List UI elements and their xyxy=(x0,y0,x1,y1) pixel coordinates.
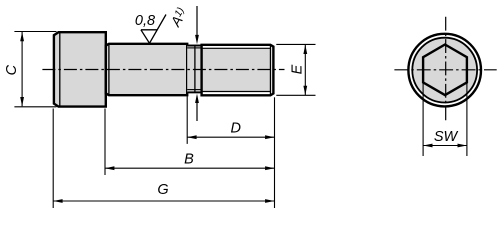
groove top edge xyxy=(187,45,201,47)
B arrow left xyxy=(105,166,114,170)
thread root line bottom xyxy=(202,91,271,93)
D extension line left xyxy=(186,94,188,144)
datum A lower arrow line xyxy=(196,102,198,121)
right shared extension line xyxy=(274,97,276,208)
datum A lower arrowhead xyxy=(195,94,199,103)
B extension line left xyxy=(104,109,106,176)
head fill xyxy=(54,32,106,106)
C dimension line xyxy=(21,32,23,106)
D arrow left xyxy=(187,135,196,139)
end view vertical centerline xyxy=(445,17,447,121)
SW dimension line xyxy=(423,145,467,147)
thread root line top xyxy=(202,47,271,49)
E dimension line xyxy=(304,45,306,96)
E arrow top xyxy=(303,45,307,54)
groove bottom inner line xyxy=(187,89,201,91)
datum A upper arrowhead xyxy=(195,35,199,44)
E extension line bottom xyxy=(276,94,315,96)
thread chamfer line xyxy=(269,45,271,96)
thread crest white band bottom xyxy=(202,92,271,94)
svg-text:E: E xyxy=(290,64,306,74)
groove middle line xyxy=(194,46,196,93)
head chamfer line xyxy=(59,32,61,106)
shoulder chamfer line xyxy=(108,44,110,95)
svg-text:C: C xyxy=(4,64,20,75)
D arrow right xyxy=(265,135,274,139)
C arrow bottom xyxy=(20,97,24,106)
E arrow bottom xyxy=(303,86,307,95)
SW arrow left xyxy=(423,144,432,148)
groove top inner line xyxy=(187,47,201,49)
end view inner circle xyxy=(412,38,477,103)
shoulder fill xyxy=(106,44,187,95)
B dimension line xyxy=(105,167,275,169)
D dimension line xyxy=(187,136,274,138)
svg-text:D: D xyxy=(230,121,240,137)
G arrow right xyxy=(265,199,274,203)
surface finish symbol triangle xyxy=(141,15,166,44)
centerline side view xyxy=(42,69,284,71)
svg-text:0,8: 0,8 xyxy=(135,13,155,29)
B arrow right xyxy=(265,166,274,170)
G extension line left xyxy=(52,109,54,209)
SW extension line right xyxy=(466,84,468,157)
head outline xyxy=(54,32,106,106)
thread fill xyxy=(202,45,274,96)
C arrow top xyxy=(20,32,24,41)
datum A upper arrow line xyxy=(196,6,198,37)
end view outer circle xyxy=(408,34,481,107)
C extension line bottom xyxy=(14,106,56,108)
SW arrow right xyxy=(458,144,467,148)
svg-text:G: G xyxy=(157,182,168,198)
shoulder outline xyxy=(106,44,187,95)
hex socket xyxy=(423,45,467,96)
SW extension line left xyxy=(422,84,424,157)
end view horizontal centerline xyxy=(394,69,496,71)
thread outline xyxy=(202,45,274,96)
undercut groove fill xyxy=(187,46,201,93)
G dimension line xyxy=(53,200,274,202)
G arrow left xyxy=(53,199,62,203)
E extension line top xyxy=(276,43,315,45)
thread crest white band top xyxy=(202,46,271,48)
C extension line top xyxy=(14,31,56,33)
svg-text:SW: SW xyxy=(434,129,459,145)
groove bottom edge xyxy=(187,91,201,93)
svg-text:B: B xyxy=(184,152,194,168)
